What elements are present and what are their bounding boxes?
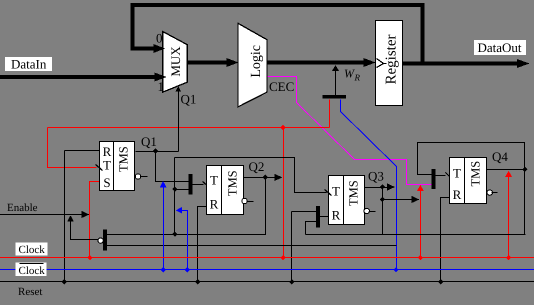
- junction dot reset FF2: [195, 279, 200, 284]
- wire Q3 lower with arrow to red: [382, 188, 384, 200]
- wire Q1 from FF1 output: [136, 151, 179, 153]
- junction red dot on clock line: [280, 255, 285, 260]
- flip-flop FF3 box: [329, 176, 365, 225]
- wire red up into Q4 wire: [508, 177, 510, 258]
- junction dot Q3 upper: [380, 184, 385, 189]
- wire Enable: [0, 214, 83, 216]
- svg-text:TMS: TMS: [347, 180, 361, 206]
- switch bar FF3: [316, 206, 320, 227]
- wire link bus to Q4: [306, 234, 526, 236]
- junction dot Q2: [263, 175, 268, 180]
- wire Register out / DataOut: [403, 62, 521, 66]
- wire enable L to FF1 bar: [71, 222, 98, 240]
- wire FF3 R input: [320, 216, 329, 218]
- wire Q3 output: [365, 187, 389, 189]
- svg-text:S: S: [103, 175, 110, 190]
- svg-text:R: R: [210, 196, 219, 211]
- svg-text:Q1: Q1: [141, 134, 157, 149]
- wire bus B from FF1 bar to blue vertical: [107, 245, 397, 247]
- bubble on FF1 bar: [98, 238, 103, 243]
- DataOut label: [474, 40, 526, 55]
- wire MUX out to Logic: [188, 61, 231, 65]
- svg-text:Clock: Clock: [19, 265, 46, 277]
- flip-flop FF4 box: [450, 158, 487, 204]
- wire FF1 R to Reset: [64, 151, 66, 282]
- svg-text:TMS: TMS: [225, 170, 239, 196]
- junction red dot: [87, 255, 92, 260]
- junction dot Q1: [153, 148, 158, 153]
- wire red to WR bar: [329, 100, 331, 128]
- register U3: [376, 21, 403, 106]
- wire red to FF1 S input: [90, 182, 101, 258]
- svg-text:Q3: Q3: [368, 169, 384, 184]
- wire FF3 bar upper to Reset: [292, 211, 317, 213]
- wire red up into CEC net near FF4: [420, 191, 422, 258]
- register input chevron: [377, 59, 384, 68]
- svg-text:Clock: Clock: [19, 244, 46, 256]
- svg-text:DataOut: DataOut: [478, 40, 522, 55]
- switch bar FF1: [103, 230, 107, 251]
- svg-text:R: R: [332, 208, 341, 223]
- clock chevron FF1: [96, 165, 103, 171]
- wire Q4 down to link bus: [524, 170, 526, 235]
- svg-text:MUX: MUX: [168, 46, 183, 77]
- junction dot reset FF3: [289, 279, 294, 284]
- junction dot reset FF4: [438, 279, 443, 284]
- wire bus A from FF1 bar to Q2: [107, 178, 266, 235]
- wire clock-bar net (blue) from WR bar: [341, 100, 397, 270]
- wire DataIn: [0, 75, 156, 79]
- svg-text:Logic: Logic: [249, 45, 264, 78]
- svg-text:CEC: CEC: [269, 79, 294, 94]
- wire blue up-arrow into FF2 feed: [163, 187, 165, 270]
- wire Q3 down to link bus: [382, 200, 384, 235]
- wire Reset: [0, 281, 534, 283]
- svg-text:W: W: [344, 67, 355, 81]
- wire Clock-bar (blue): [0, 269, 534, 271]
- junction red dot top: [280, 125, 285, 130]
- wire red clock feed horizontal: [48, 127, 330, 129]
- wire FF3 bar lower from Q3 link: [306, 222, 317, 235]
- svg-text:TMS: TMS: [117, 146, 131, 172]
- junction dot Q3 lower: [380, 197, 385, 202]
- wire to FF2 bar lower: [175, 189, 189, 191]
- svg-text:Q2: Q2: [249, 159, 265, 174]
- wire Logic out to Register: [268, 61, 368, 65]
- wire Q4 feedback top: [418, 143, 525, 175]
- wire FF2 R to Reset: [198, 207, 207, 282]
- wire Clock (red): [0, 257, 534, 259]
- output bubble FF2: [242, 198, 247, 203]
- output bubble FF3: [364, 208, 369, 213]
- wire Q2 output with arrow to red line: [244, 177, 276, 179]
- flip-flop FF1 box: [100, 142, 135, 191]
- svg-text:R: R: [354, 73, 361, 83]
- svg-text:TMS: TMS: [469, 161, 483, 187]
- svg-text:Q1: Q1: [181, 92, 197, 107]
- svg-text:Reset: Reset: [18, 286, 42, 298]
- wire Q1 down to FF2 bar: [156, 152, 189, 182]
- output bubble FF4: [487, 190, 492, 195]
- wire FF4 R to Reset: [441, 198, 450, 282]
- wire WR vertical with arrow: [335, 70, 337, 96]
- Clock label: [16, 243, 48, 256]
- svg-text:0: 0: [156, 31, 163, 46]
- wire FF1 R input: [65, 150, 100, 152]
- output bubble FF1: [135, 174, 140, 179]
- svg-text:T: T: [453, 166, 461, 181]
- junction blue dot: [393, 267, 398, 272]
- svg-text:DataIn: DataIn: [11, 57, 47, 72]
- logic U2: [238, 23, 267, 107]
- DataIn label: [5, 57, 52, 71]
- svg-text:1: 1: [158, 79, 165, 94]
- clock chevron FF4: [446, 173, 452, 179]
- wire red to FF1 T input: [48, 128, 97, 168]
- svg-text:R: R: [453, 187, 462, 202]
- junction dot Q4: [522, 167, 527, 172]
- wire FF2 T input: [193, 184, 204, 186]
- clock chevron FF2: [203, 182, 210, 188]
- wire feedback loop top (Register output to MUX input 0): [133, 5, 423, 64]
- flip-flop FF2 box: [207, 166, 244, 215]
- Clock-bar label: [16, 263, 47, 276]
- svg-text:Enable: Enable: [7, 202, 38, 214]
- wire CEC net (magenta): [268, 77, 432, 185]
- wire vertical FF2 feed: [174, 158, 176, 235]
- switch bar WR: [322, 95, 346, 98]
- switch bar FF4: [431, 169, 435, 189]
- svg-text:Register: Register: [383, 35, 399, 85]
- wire blue left-arrow into FF2 vertical: [182, 211, 188, 270]
- wire to FF3 T input: [175, 158, 327, 193]
- mux U1: [163, 32, 187, 93]
- junction dot: [172, 187, 177, 192]
- junction dot on bus A: [172, 232, 177, 237]
- wire FF4 T input: [435, 175, 446, 177]
- wire MUX input 0 stub with arrow: [131, 47, 156, 51]
- svg-text:T: T: [332, 183, 340, 198]
- svg-text:T: T: [103, 158, 111, 173]
- clock chevron FF3: [325, 190, 332, 196]
- svg-text:T: T: [210, 173, 218, 188]
- wire Q4 output: [487, 169, 525, 171]
- switch bar FF2: [189, 174, 193, 195]
- wire Q1 vertical from MUX: [178, 92, 180, 152]
- wire red mid vertical: [283, 128, 285, 258]
- svg-text:Q4: Q4: [492, 149, 508, 164]
- junction dot reset FF1: [62, 279, 67, 284]
